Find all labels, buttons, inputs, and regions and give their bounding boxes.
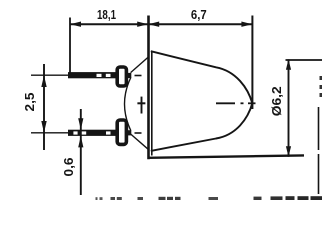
extension line left of 18,1 — [69, 18, 71, 76]
svg-text:Ø6,2: Ø6,2 — [269, 86, 284, 116]
upper lead axis dash — [135, 75, 142, 77]
dimension line 6,7 — [148, 23, 252, 25]
upper funnel line — [131, 57, 149, 73]
arrow top of Ø6,2 — [286, 59, 291, 70]
upper lead bar — [68, 72, 116, 78]
arrow top of 2,5 — [41, 75, 46, 87]
arrow left of 18,1 — [70, 22, 81, 27]
lower funnel line — [131, 134, 149, 150]
body top edge / dome — [151, 51, 253, 103]
lower lead bar — [68, 130, 116, 136]
arrow bottom of 0,6 — [78, 136, 83, 148]
lower lead axis dash — [135, 132, 142, 134]
right edge cut marks — [320, 76, 322, 80]
flange vertical line — [147, 16, 150, 160]
extension line right of 6,7 / dome tangent — [251, 16, 253, 110]
extension line top of Ø6,2 — [286, 59, 322, 61]
dimension line 0,6 — [80, 109, 82, 195]
lower lead extension line (thin) — [31, 132, 68, 134]
arrow bottom of Ø6,2 — [286, 146, 291, 157]
axis dash-dot — [216, 102, 235, 104]
svg-text:2,5: 2,5 — [22, 93, 37, 112]
arrow right of 18,1 — [137, 22, 148, 27]
svg-text:6,7: 6,7 — [191, 7, 207, 22]
lower lead tab — [117, 120, 126, 144]
bottom cut-off text row — [96, 196, 322, 200]
svg-text:18,1: 18,1 — [97, 7, 116, 22]
arrow left of 6,7 — [148, 22, 159, 27]
arrow bottom of 2,5 — [41, 121, 46, 133]
upper lead tab — [117, 67, 126, 86]
dimension line Ø6,2 — [288, 59, 290, 157]
svg-text:0,6: 0,6 — [61, 158, 76, 177]
dimension line 2,5 — [43, 64, 45, 150]
arrow top of 0,6 — [78, 118, 83, 130]
lower lead nub — [128, 130, 132, 135]
upper lead extension line (thin) — [31, 74, 68, 76]
back arc between leads — [125, 78, 131, 131]
axis cross at flange (horizontal) — [137, 102, 145, 104]
body left edge line — [151, 51, 153, 155]
arrow right of 6,7 — [241, 22, 252, 27]
axis cross at flange (vertical) — [141, 97, 143, 114]
body bottom edge / dome — [151, 103, 253, 151]
right edge cut vertical line — [318, 107, 320, 150]
upper lead nub — [128, 73, 132, 78]
dimension line 18,1 — [70, 23, 148, 25]
long bottom line — [148, 155, 304, 157]
